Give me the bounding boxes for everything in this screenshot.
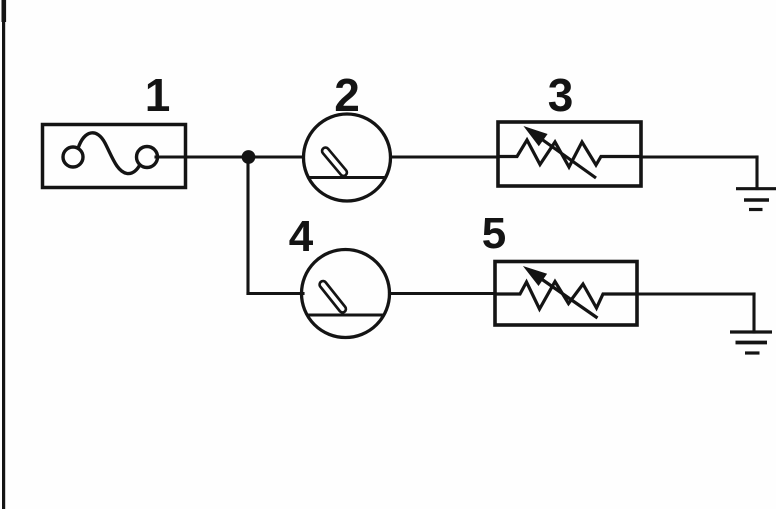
svg-text:5: 5 [482, 209, 506, 258]
svg-text:1: 1 [145, 69, 171, 121]
svg-text:3: 3 [548, 69, 574, 121]
svg-text:2: 2 [334, 69, 360, 121]
svg-text:4: 4 [289, 212, 314, 261]
